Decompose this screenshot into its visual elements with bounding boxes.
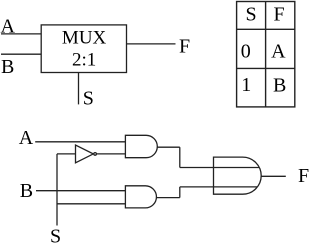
svg-text:F: F bbox=[273, 3, 284, 25]
svg-text:2:1: 2:1 bbox=[72, 49, 96, 70]
wire A to and-gate U3 bbox=[35, 141, 125, 143]
wire U3 output horizontal bbox=[157, 146, 180, 148]
svg-text:A: A bbox=[271, 40, 286, 62]
wire S branch to and-gate U4 bbox=[57, 203, 125, 205]
wire A to MUX bbox=[1, 33, 42, 35]
wire S to inverter input bbox=[57, 153, 76, 155]
svg-text:1: 1 bbox=[241, 74, 251, 96]
svg-text:B: B bbox=[273, 74, 286, 96]
svg-text:F: F bbox=[179, 36, 190, 58]
wire inverter output to and-gate U3 bbox=[97, 153, 126, 155]
wire S vertical run bbox=[56, 154, 58, 226]
svg-text:S: S bbox=[245, 3, 256, 25]
truth table text bbox=[241, 3, 287, 96]
truth table bbox=[237, 2, 295, 107]
wire into or-gate bottom input bbox=[180, 186, 258, 188]
mux U1 label MUX 2:1 bbox=[62, 27, 107, 70]
svg-text:B: B bbox=[20, 180, 33, 202]
svg-text:A: A bbox=[19, 127, 34, 149]
wire S to MUX bbox=[78, 73, 80, 105]
mux U1 bbox=[41, 25, 126, 73]
wire or-gate output F bbox=[261, 175, 286, 177]
and-gate U3 (A and not-S) bbox=[125, 135, 157, 157]
wire into or-gate top input bbox=[180, 167, 259, 169]
svg-text:S: S bbox=[50, 226, 61, 248]
and-gate U4 (B and S) bbox=[125, 186, 156, 208]
wire U4 output step up bbox=[179, 187, 181, 198]
wire U3 output step down bbox=[179, 147, 181, 167]
wire MUX output bbox=[127, 43, 176, 45]
wire U4 output horizontal bbox=[157, 197, 180, 199]
svg-text:B: B bbox=[1, 56, 14, 78]
svg-text:0: 0 bbox=[241, 40, 251, 62]
inverter U2 bbox=[76, 145, 97, 163]
wire B to and-gate U4 bbox=[36, 190, 125, 192]
or-gate U5 (output) bbox=[214, 157, 262, 194]
wire B to MUX bbox=[1, 53, 42, 55]
svg-text:S: S bbox=[83, 88, 94, 110]
svg-text:F: F bbox=[298, 165, 309, 187]
svg-text:MUX: MUX bbox=[62, 27, 107, 48]
